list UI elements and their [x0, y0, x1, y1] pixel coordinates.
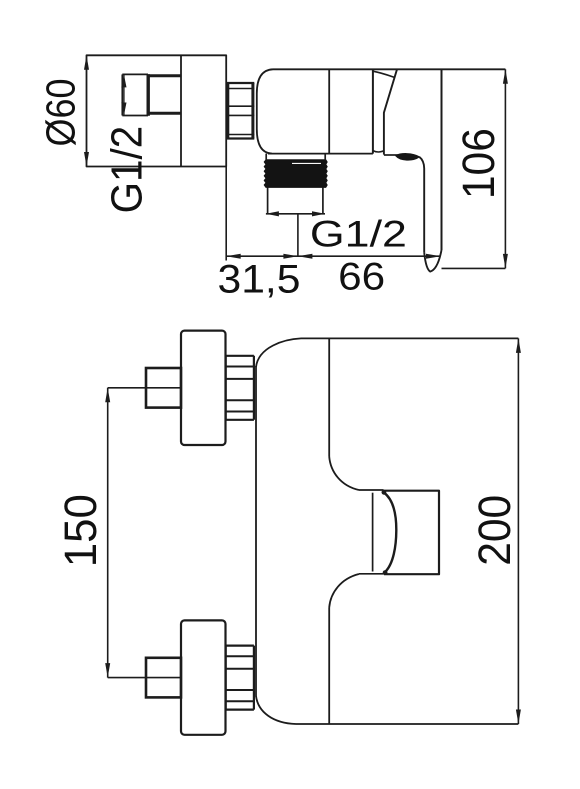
svg-text:106: 106 — [453, 128, 504, 199]
svg-text:66: 66 — [338, 255, 385, 298]
svg-text:200: 200 — [469, 495, 520, 566]
svg-text:31,5: 31,5 — [218, 258, 301, 302]
svg-text:G1/2: G1/2 — [310, 213, 407, 255]
svg-text:150: 150 — [55, 494, 106, 567]
svg-text:G1/2: G1/2 — [102, 126, 151, 214]
svg-text:Ø60: Ø60 — [37, 79, 83, 147]
